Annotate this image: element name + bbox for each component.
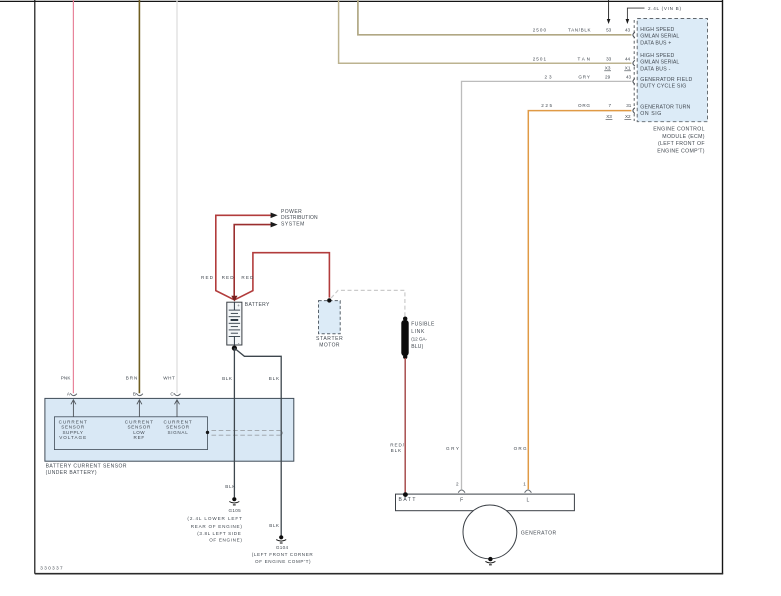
wire BLK battery to G105: [233, 348, 235, 497]
wire RED battery to power distribution 2: [234, 225, 271, 300]
battery BATTERY: [227, 302, 270, 346]
svg-text:GRY: GRY: [446, 446, 459, 451]
svg-text:33: 33: [606, 56, 612, 61]
svg-text:RED/: RED/: [390, 442, 405, 447]
svg-text:2.4L (VIN B): 2.4L (VIN B): [648, 6, 681, 11]
svg-text:BLK: BLK: [225, 484, 236, 489]
svg-text:GRY: GRY: [578, 75, 590, 80]
wire 2501 TAN to ECM pin 33/44: [339, 0, 632, 63]
svg-text:X1: X1: [625, 66, 631, 71]
svg-text:LOW: LOW: [133, 430, 145, 435]
svg-text:PNK: PNK: [61, 375, 72, 380]
svg-text:X3: X3: [605, 66, 611, 71]
svg-text:CURRENT: CURRENT: [125, 419, 153, 424]
svg-text:DATA BUS -: DATA BUS -: [640, 66, 670, 72]
ground G105: [187, 497, 242, 542]
svg-text:POWER: POWER: [281, 209, 302, 215]
svg-text:DISTRIBUTION: DISTRIBUTION: [281, 215, 318, 221]
svg-text:CURRENT: CURRENT: [164, 419, 192, 424]
svg-text:BATT: BATT: [399, 497, 416, 503]
ECM pin function labels: [640, 27, 692, 117]
wire 2500 TAN/BLK to ECM pin 53/43: [358, 0, 632, 35]
wire BRN to sensor pin B: [138, 0, 140, 393]
starter motor (dashed box): [316, 301, 343, 349]
svg-text:X2: X2: [625, 114, 631, 119]
svg-text:L: L: [527, 498, 530, 504]
svg-text:OF ENGINE COMP'T): OF ENGINE COMP'T): [255, 559, 311, 564]
svg-text:1: 1: [523, 482, 526, 487]
svg-text:HIGH SPEED: HIGH SPEED: [640, 53, 674, 59]
svg-text:BLK: BLK: [269, 523, 280, 528]
connector arc generator L: [525, 490, 532, 493]
svg-text:TAN/BLK: TAN/BLK: [568, 28, 592, 33]
arrow to power distribution 1: [271, 213, 278, 219]
svg-text:STARTER: STARTER: [316, 336, 343, 342]
wire 225 ORG (ECM to generator L): [528, 111, 631, 490]
arrow supply voltage to pin A: [72, 401, 74, 417]
wire RED/BLK fusible link to generator BATT: [404, 358, 406, 494]
svg-text:SYSTEM: SYSTEM: [281, 222, 304, 228]
svg-text:(2.4L LOWER LEFT: (2.4L LOWER LEFT: [187, 516, 242, 521]
arrow low ref to pin B: [138, 401, 140, 417]
svg-text:LINK: LINK: [411, 329, 425, 335]
svg-text:BLU): BLU): [411, 344, 423, 350]
svg-text:GENERATOR FIELD: GENERATOR FIELD: [640, 77, 692, 83]
op ECM box: [637, 19, 707, 122]
svg-text:BLK: BLK: [391, 448, 402, 453]
generator circle: [463, 505, 517, 559]
svg-text:MODULE (ECM): MODULE (ECM): [662, 134, 704, 140]
svg-text:GENERATOR: GENERATOR: [521, 531, 557, 537]
ECM caption: [653, 127, 705, 155]
svg-text:GMLAN SERIAL: GMLAN SERIAL: [640, 60, 679, 66]
connector arc generator F: [458, 490, 465, 493]
connector arc pin 43b: [633, 79, 635, 85]
arrow into battery positive: [231, 296, 237, 302]
svg-text:44: 44: [625, 56, 631, 61]
svg-text:B: B: [133, 392, 136, 397]
svg-text:(UNDER BATTERY): (UNDER BATTERY): [46, 470, 97, 476]
wire stub with arrow to pin 53: [608, 0, 610, 20]
svg-text:F: F: [460, 498, 463, 504]
svg-text:(3.8L LEFT SIDE: (3.8L LEFT SIDE: [197, 531, 241, 536]
svg-text:RED: RED: [222, 275, 235, 280]
svg-text:SENSOR: SENSOR: [61, 425, 85, 430]
svg-text:ORG: ORG: [578, 103, 590, 108]
connector arc pin 44: [633, 60, 635, 66]
svg-text:OF ENGINE): OF ENGINE): [209, 538, 242, 543]
node on sensor output: [206, 431, 209, 434]
svg-text:ORG: ORG: [514, 446, 527, 451]
node battery negative junction: [232, 346, 237, 351]
svg-text:43: 43: [626, 75, 632, 80]
svg-text:CURRENT: CURRENT: [59, 419, 87, 424]
svg-text:RED: RED: [241, 275, 254, 280]
wire BLK battery to G104: [234, 348, 281, 535]
arrow signal to pin C: [176, 401, 178, 417]
generator box: [396, 494, 575, 511]
sensor function labels: [59, 419, 192, 440]
svg-text:(12 GA-: (12 GA-: [411, 337, 427, 342]
svg-text:RED: RED: [201, 275, 214, 280]
fusible link F1: [401, 317, 435, 360]
wire WHT to sensor pin C: [176, 0, 178, 393]
svg-text:SIGNAL: SIGNAL: [167, 430, 188, 435]
ground G104: [252, 535, 314, 564]
svg-text:ON SIG: ON SIG: [640, 111, 661, 117]
connector arc pin 31: [633, 108, 635, 114]
svg-text:G104: G104: [276, 545, 289, 550]
wire RED battery to starter motor: [235, 253, 330, 300]
dashed twisted pair stub: [212, 430, 281, 432]
arrow to power distribution 2: [271, 222, 278, 228]
svg-text:23: 23: [545, 75, 552, 80]
svg-text:HIGH SPEED: HIGH SPEED: [640, 27, 674, 33]
svg-text:REAR OF ENGINE): REAR OF ENGINE): [191, 524, 243, 529]
connector arc pin 43: [633, 32, 635, 38]
svg-text:BLK: BLK: [269, 376, 280, 381]
svg-text:BRN: BRN: [126, 375, 138, 380]
svg-text:330337: 330337: [40, 565, 63, 570]
svg-text:GMLAN SERIAL: GMLAN SERIAL: [640, 34, 679, 40]
svg-text:WHT: WHT: [163, 375, 175, 380]
svg-text:VOLTAGE: VOLTAGE: [59, 435, 86, 440]
wire 23 GRY (ECM to generator F): [462, 81, 632, 489]
svg-text:BATTERY: BATTERY: [245, 302, 270, 308]
svg-text:7: 7: [609, 103, 612, 108]
svg-text:43: 43: [625, 28, 631, 33]
svg-text:(LEFT FRONT OF: (LEFT FRONT OF: [658, 141, 705, 147]
svg-text:ENGINE CONTROL: ENGINE CONTROL: [653, 127, 704, 133]
svg-text:X3: X3: [606, 114, 612, 119]
svg-text:SUPPLY: SUPPLY: [62, 430, 83, 435]
svg-text:SENSOR: SENSOR: [127, 425, 151, 430]
svg-text:53: 53: [606, 28, 612, 33]
svg-text:2500: 2500: [533, 28, 547, 33]
node generator BATT terminal: [403, 492, 408, 497]
svg-text:TAN: TAN: [578, 56, 591, 61]
svg-text:BLK: BLK: [222, 376, 233, 381]
battery current sensor box: [45, 398, 294, 461]
svg-text:G105: G105: [229, 508, 242, 513]
wire dashed (starter motor to fusible link): [331, 290, 405, 316]
svg-text:ENGINE COMP'T): ENGINE COMP'T): [657, 149, 704, 155]
svg-text:BATTERY CURRENT SENSOR: BATTERY CURRENT SENSOR: [46, 463, 127, 469]
svg-text:REF: REF: [134, 435, 145, 440]
svg-text:225: 225: [541, 103, 552, 108]
generator case ground: [488, 557, 492, 561]
svg-text:(LEFT FRONT CORNER: (LEFT FRONT CORNER: [252, 552, 314, 557]
svg-text:MOTOR: MOTOR: [319, 343, 340, 349]
wire PNK to sensor pin A: [72, 0, 74, 393]
2.4L (VIN B) callout leader with arrow to pin 43: [627, 8, 644, 19]
svg-text:2501: 2501: [533, 56, 547, 61]
svg-text:2: 2: [456, 482, 459, 487]
svg-text:SENSOR: SENSOR: [166, 425, 190, 430]
svg-text:31: 31: [626, 103, 632, 108]
node starter motor terminal: [327, 298, 331, 302]
wire RED battery to power distribution 1: [216, 215, 271, 299]
sensor inner function box: [54, 417, 207, 450]
svg-text:FUSIBLE: FUSIBLE: [411, 322, 435, 328]
power distribution system label: [281, 209, 318, 228]
svg-text:GENERATOR TURN: GENERATOR TURN: [640, 104, 690, 110]
svg-text:+: +: [237, 303, 240, 308]
svg-text:29: 29: [605, 75, 611, 80]
svg-text:DATA BUS +: DATA BUS +: [640, 40, 671, 46]
svg-text:DUTY CYCLE SIG: DUTY CYCLE SIG: [640, 83, 686, 89]
ECM connector dashed line: [633, 20, 635, 121]
